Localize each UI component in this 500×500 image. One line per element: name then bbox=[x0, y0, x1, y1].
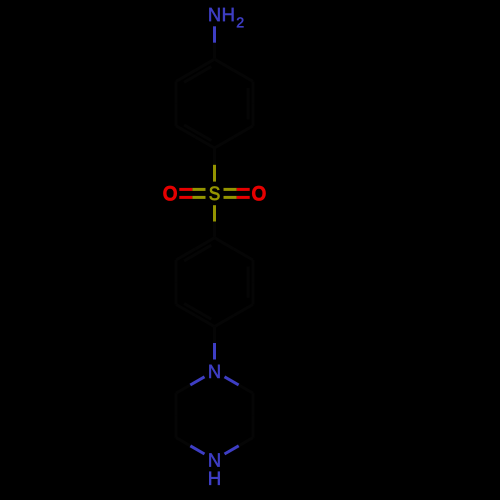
bond N1-C1 half-a bbox=[213, 26, 216, 43]
bond N2-C13 half-b bbox=[239, 385, 253, 393]
bond C16-N2 half-a bbox=[176, 385, 190, 393]
piperazine N1 label bbox=[209, 365, 219, 378]
ring2 bond C7-C8 half-b bbox=[234, 249, 253, 260]
ring1 bond C4-C5 half-a bbox=[195, 137, 214, 148]
ring2 bond C11-C12 half-a bbox=[175, 282, 178, 304]
bond C15-C16 half-a bbox=[175, 415, 178, 437]
ring1 bond C6-C1 half-b bbox=[195, 59, 214, 70]
sulfonyl S label bbox=[210, 186, 220, 200]
ring2 bond C11-C12 half-b bbox=[175, 260, 178, 282]
ring2 bond C8-C9 half-b bbox=[252, 282, 255, 304]
ring1 bond C1-C2 half-b bbox=[234, 70, 253, 81]
amine N label bbox=[209, 8, 219, 21]
bond C13-C14 half-a bbox=[252, 393, 255, 415]
ring1 bond C2-C3 half-b bbox=[252, 104, 255, 126]
bond N3-C15 half-b bbox=[176, 438, 190, 446]
ring2 bond C8-C9 half-a bbox=[252, 260, 255, 282]
ring2 inner double C12-C7 bbox=[184, 245, 211, 261]
ring2 bond C12-C7 half-a bbox=[176, 249, 195, 260]
bond C4-S half-a bbox=[213, 148, 216, 165]
bond C16-N2 half-b bbox=[190, 377, 204, 385]
ring1 bond C3-C4 half-a bbox=[234, 126, 253, 137]
S=OL double line S half bbox=[192, 196, 205, 199]
sulfonyl O left label bbox=[164, 186, 176, 200]
bond N1-C1 half-b bbox=[213, 43, 216, 59]
amine H label bbox=[223, 8, 233, 21]
bond C4-S half-b bbox=[213, 165, 216, 182]
ring2 bond C7-C8 half-a bbox=[215, 238, 234, 249]
amine subscript 2 bbox=[237, 17, 243, 27]
bond C10-N2 half-b bbox=[213, 343, 216, 360]
ring1 inner double C4-C5 bbox=[184, 125, 211, 141]
bond C13-C14 half-b bbox=[252, 415, 255, 437]
ring2 inner double C10-C11 bbox=[184, 304, 211, 320]
bond N2-C13 half-a bbox=[225, 377, 239, 385]
ring2 inner double C8-C9 bbox=[247, 267, 250, 298]
ring2 bond C9-C10 half-a bbox=[234, 304, 253, 315]
S=OR double line O half bbox=[237, 196, 250, 199]
S=OR double line O half bbox=[237, 188, 250, 191]
S=OL double line O half bbox=[179, 188, 192, 191]
ring2 bond C9-C10 half-b bbox=[215, 316, 234, 327]
bond C15-C16 half-b bbox=[175, 393, 178, 415]
sulfonyl O right label bbox=[253, 186, 265, 200]
ring1 bond C6-C1 half-a bbox=[176, 70, 195, 81]
bond S-C7 half-b bbox=[213, 222, 216, 238]
bond N3-C15 half-a bbox=[190, 446, 204, 454]
ring2 bond C12-C7 half-b bbox=[195, 238, 214, 249]
ring2 bond C10-C11 half-a bbox=[195, 316, 214, 327]
ring1 bond C5-C6 half-a bbox=[175, 104, 178, 126]
ring1 inner double C2-C3 bbox=[247, 88, 250, 119]
S=OR double line S half bbox=[224, 196, 237, 199]
bond C14-N3 half-b bbox=[225, 446, 239, 454]
S=OL double line O half bbox=[179, 196, 192, 199]
S=OL double line S half bbox=[192, 188, 205, 191]
bond C14-N3 half-a bbox=[239, 438, 253, 446]
bond C10-N2 half-a bbox=[213, 327, 216, 343]
ring1 bond C5-C6 half-b bbox=[175, 81, 178, 103]
piperazine N4 label bbox=[209, 453, 219, 466]
ring1 bond C4-C5 half-b bbox=[176, 126, 195, 137]
ring2 bond C10-C11 half-b bbox=[176, 304, 195, 315]
piperazine NH label bbox=[209, 472, 219, 485]
S=OR double line S half bbox=[224, 188, 237, 191]
ring1 bond C1-C2 half-a bbox=[215, 59, 234, 70]
ring1 inner double C6-C1 bbox=[184, 67, 211, 83]
bond S-C7 half-a bbox=[213, 205, 216, 221]
ring1 bond C2-C3 half-a bbox=[252, 81, 255, 103]
ring1 bond C3-C4 half-b bbox=[215, 137, 234, 148]
